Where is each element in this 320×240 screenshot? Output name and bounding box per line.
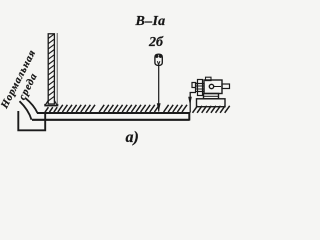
- svg-text:В–Iа: В–Iа: [135, 14, 166, 29]
- svg-text:а): а): [126, 129, 139, 146]
- svg-text:2б: 2б: [148, 35, 164, 50]
